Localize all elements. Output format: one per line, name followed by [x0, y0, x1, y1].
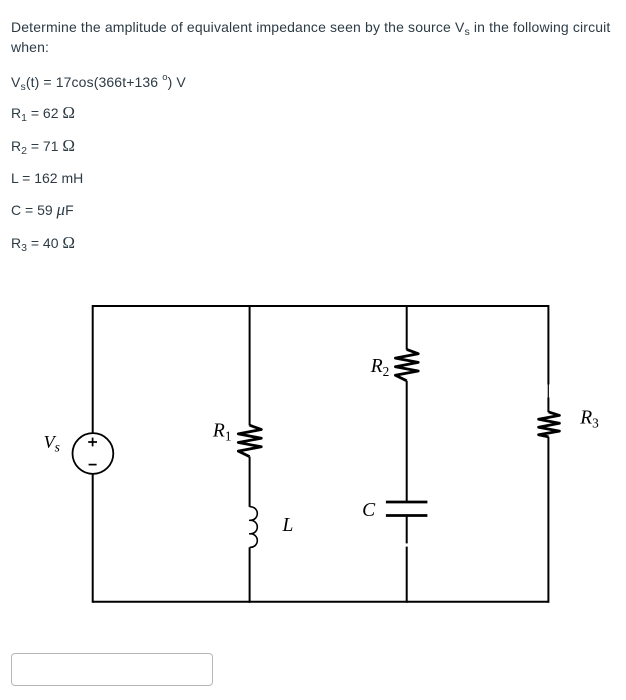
- value label Vs(t): [11, 72, 186, 92]
- inductor L: [250, 507, 258, 548]
- resistor R3: [539, 412, 560, 437]
- capacitor C bottom plate: [386, 514, 428, 517]
- wire branch2 bottom segment: [406, 547, 408, 603]
- wire branch2 lower: [406, 516, 408, 544]
- svg-text:R1: R1: [212, 420, 232, 443]
- answer input box: [11, 653, 213, 686]
- wire left lower: [92, 474, 94, 603]
- wire right upper stub: [547, 398, 549, 413]
- wire right lower: [547, 437, 549, 603]
- wire branch1 upper: [249, 305, 251, 426]
- resistor R2: [395, 349, 418, 380]
- value label R3: [11, 233, 75, 253]
- wire right upper thin overlap: [547, 384, 549, 398]
- voltage source plus: [88, 438, 97, 447]
- voltage source Vs circle: [73, 433, 114, 474]
- capacitor C top plate: [386, 501, 428, 504]
- value label C: [11, 200, 74, 220]
- wire branch1 lower: [249, 547, 251, 603]
- svg-text:C: C: [362, 500, 376, 521]
- wire bottom: [93, 601, 549, 603]
- value label R1: [11, 103, 75, 123]
- resistor R1: [238, 425, 261, 456]
- wire top: [93, 305, 549, 307]
- wire right upper: [547, 305, 549, 385]
- svg-text:L: L: [282, 515, 294, 536]
- question text: [11, 17, 610, 57]
- wire branch1 middle: [249, 457, 251, 507]
- svg-text:R3: R3: [579, 408, 599, 431]
- wire left upper: [92, 305, 94, 433]
- voltage source minus: [89, 464, 97, 466]
- wire branch2 upper: [406, 305, 408, 350]
- value label R2: [11, 136, 75, 156]
- svg-text:Vs: Vs: [44, 432, 60, 454]
- svg-text:R2: R2: [370, 356, 390, 379]
- wire branch2 middle: [406, 381, 408, 502]
- value label L: [11, 168, 83, 188]
